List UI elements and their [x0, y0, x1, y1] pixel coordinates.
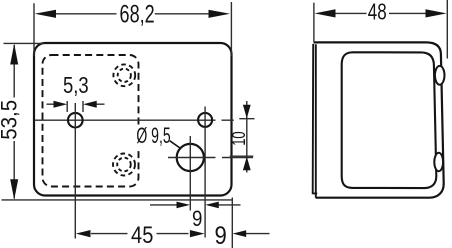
dimension 9 edge offset extension line — [231, 198, 233, 248]
dimension 45 line — [91, 233, 189, 235]
dimension 48 line — [334, 12, 427, 14]
dimension 68,2 line — [55, 13, 210, 15]
svg-text:9: 9 — [214, 222, 226, 248]
dimension 45 arrowheads — [76, 230, 205, 237]
reflector optic top (dashed circles) — [113, 64, 135, 86]
cable hole centerline horizontal — [168, 157, 253, 159]
dimension 5,3 line and outside arrows — [47, 103, 105, 105]
svg-text:53,5: 53,5 — [0, 100, 22, 140]
side view lens outline — [342, 52, 437, 188]
dimension 53,5 extension lines — [2, 43, 233, 200]
dimension 48 extension lines — [314, 0, 447, 59]
screw head top — [435, 66, 445, 85]
mounting hole left centerline vertical — [74, 103, 76, 239]
mounting hole left — [68, 113, 83, 128]
side view housing outline — [314, 42, 444, 197]
cable hole centerline vertical — [189, 136, 191, 211]
side view mounting flange — [313, 44, 318, 194]
svg-text:48: 48 — [368, 0, 387, 25]
text mask over lens dashed outline — [135, 126, 146, 148]
dimension 9 hole offset line — [150, 204, 241, 206]
reflector optic bottom (dashed circles) — [113, 154, 135, 176]
leader line for cable hole label — [170, 141, 181, 149]
dimension 10 line — [246, 101, 248, 173]
svg-text:68,2: 68,2 — [120, 0, 155, 28]
dimension 5,3 extension ticks — [67, 101, 83, 112]
dimension 68,2 extension lines — [34, 2, 231, 56]
svg-text:Ø 9,5: Ø 9,5 — [136, 123, 170, 148]
svg-text:5,3: 5,3 — [63, 73, 89, 98]
dimension 53,5 arrowheads — [10, 44, 18, 200]
mounting hole right — [198, 113, 212, 127]
dimension 10 extension ticks — [230, 119, 255, 157]
cable hole — [177, 144, 204, 171]
dimension 9 edge offset arrow and shaft — [245, 233, 270, 235]
svg-text:10: 10 — [230, 131, 250, 145]
centerline through mounting holes — [35, 119, 234, 121]
lens area dashed outline — [43, 55, 139, 187]
dimension 48 arrowheads — [315, 9, 447, 17]
mounting hole right centerline vertical — [204, 107, 206, 238]
screw head bottom — [434, 153, 443, 171]
dimension 9 hole offset arrowheads — [177, 202, 219, 209]
dimension 10 arrowheads — [243, 105, 251, 170]
dimension 53,5 line — [13, 45, 15, 199]
dimension 68,2 arrowheads — [35, 10, 230, 18]
svg-text:9: 9 — [192, 208, 202, 232]
front view housing outline — [34, 43, 232, 196]
svg-text:45: 45 — [131, 221, 153, 248]
